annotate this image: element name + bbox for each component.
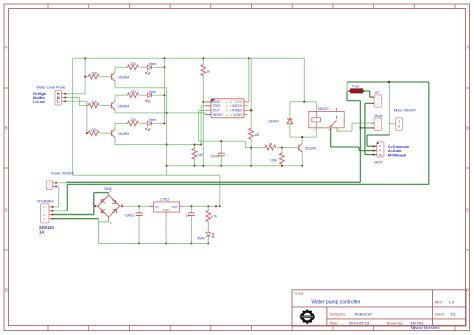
wire fuse left branch to motor [347, 91, 374, 182]
svg-text:DISCH: DISCH [232, 104, 243, 108]
555 pin stubs [205, 102, 251, 115]
svg-text:Water pump controller: Water pump controller [311, 299, 360, 305]
capacitor C2 1000u [125, 206, 143, 244]
svg-text:2N3904: 2N3904 [305, 146, 316, 150]
svg-text:Motor ON/OFF: Motor ON/OFF [394, 109, 416, 113]
wire power pin1 to mains band [56, 181, 66, 184]
svg-text:OUT: OUT [171, 205, 178, 209]
svg-text:M=Manual: M=Manual [388, 154, 406, 158]
svg-text:220: 220 [131, 118, 137, 122]
wire switch loop [367, 82, 389, 146]
svg-text:XFORMER: XFORMER [37, 199, 55, 203]
svg-text:100nF: 100nF [211, 154, 220, 158]
svg-text:5mm: 5mm [149, 118, 156, 122]
resistor R5 220 LED [127, 90, 138, 98]
resistor R11 100k [270, 148, 284, 167]
wire fuse right to AC pin1 [363, 91, 375, 97]
svg-text:RoBoCaT: RoBoCaT [355, 312, 373, 317]
svg-text:1M: 1M [254, 133, 259, 137]
svg-text:C: C [5, 208, 8, 213]
LED1 5mm [146, 62, 157, 75]
connector P4 SPDT [372, 142, 384, 165]
relay K1 08VDC [309, 102, 344, 137]
resistor R12 4.7k [206, 206, 218, 232]
svg-text:SPDT: SPDT [374, 161, 383, 165]
wire R3 to Q3 base [100, 132, 111, 134]
svg-text:Water Level Probe: Water Level Probe [37, 85, 66, 89]
wire xformer O- to bridge [53, 219, 109, 244]
wire xformer O+ to bridge [53, 193, 109, 215]
ground bus vertical [166, 88, 168, 176]
emitter rail stage1 to ground bus [115, 87, 167, 89]
svg-text:IN: IN [155, 205, 158, 209]
dark top rail right [347, 81, 429, 84]
title block frame [292, 290, 466, 326]
svg-text:Sheet:: Sheet: [435, 313, 445, 317]
svg-text:REV:: REV: [435, 301, 443, 305]
LED cathode bus [164, 58, 166, 123]
connector J1 water probe [55, 90, 66, 105]
title block text [294, 292, 457, 330]
wire LED1 to +12 bus [152, 66, 165, 68]
connector P2 AC [371, 91, 382, 108]
transistor Q3 2N3904 [112, 129, 130, 138]
svg-text:1.0: 1.0 [449, 300, 455, 305]
svg-text:5MM: 5MM [197, 236, 204, 240]
wire regulator out rail [185, 205, 220, 207]
svg-text:Date:: Date: [330, 321, 339, 325]
svg-text:Company:: Company: [330, 313, 346, 317]
wire R2 to Q2 base [100, 105, 111, 107]
resistor R2 220 base [88, 100, 99, 108]
transistor Q4 2N3904 relay driver [299, 143, 316, 152]
svg-text:220: 220 [131, 62, 137, 66]
svg-text:08VDC: 08VDC [318, 107, 329, 111]
transistor Q2 2N3904 [112, 101, 130, 110]
svg-text:1000u: 1000u [125, 214, 134, 218]
svg-text:2N3904: 2N3904 [118, 76, 129, 80]
svg-text:5mm: 5mm [149, 90, 156, 94]
svg-text:100k: 100k [270, 158, 277, 162]
svg-text:AC: AC [375, 91, 380, 95]
wire mains band upper dark [66, 181, 360, 184]
connector P3 Motor [371, 114, 383, 131]
svg-text:B: B [5, 126, 8, 131]
svg-text:220: 220 [91, 128, 97, 132]
svg-text:Motor: Motor [374, 114, 383, 118]
resistor R10 1k [265, 142, 276, 150]
svg-text:A=Auto: A=Auto [388, 149, 402, 153]
svg-text:A: A [466, 45, 469, 50]
capacitor C3 1u [185, 206, 195, 244]
svg-text:L7812: L7812 [160, 198, 169, 202]
wire relay pole to SPDT auto [331, 128, 377, 151]
wire to LED2 [140, 94, 148, 96]
wire R1 to Q1 base [100, 76, 111, 78]
transistor Q1 2N3904 [112, 73, 130, 82]
regulator U2 L7812 [149, 198, 184, 218]
wire relay loop bottom [290, 136, 316, 138]
resistor R8 1M [249, 128, 259, 167]
LED4 5MM power [197, 232, 214, 244]
switch S1 motor on/off [389, 109, 416, 131]
svg-text:5mm: 5mm [149, 62, 156, 66]
wire to LED1 [140, 66, 148, 68]
svg-text:1/1: 1/1 [450, 312, 456, 317]
resistor R3 220 base [88, 128, 99, 136]
svg-text:1u: 1u [185, 214, 189, 218]
supply ground rail [99, 243, 209, 245]
probe legend H=High M=Mid L=Low [33, 92, 47, 104]
wire Q2 collector to LED branch [115, 95, 127, 101]
svg-text:Drawn By:: Drawn By: [387, 321, 404, 325]
wire to LED3 [140, 122, 148, 124]
svg-text:2N3904: 2N3904 [118, 104, 129, 108]
wire +12 band light [73, 175, 221, 207]
svg-text:Power ON/OFF: Power ON/OFF [51, 172, 74, 176]
+12V top rail [73, 57, 305, 59]
wire Q4 emitter to ground rail [301, 152, 303, 167]
svg-text:4.7k: 4.7k [211, 215, 217, 219]
emitter rail stage3 to 555 TRIG [115, 106, 211, 146]
svg-text:O-: O- [43, 217, 46, 221]
svg-text:1A: 1A [39, 229, 44, 234]
svg-text:220: 220 [131, 90, 137, 94]
svg-text:1M: 1M [198, 153, 203, 157]
wire relay loop top [290, 58, 316, 102]
bridge rectifier B1 2W10 [92, 187, 123, 225]
wire Q3 emitter rail [114, 137, 116, 144]
company logo gear [300, 310, 315, 324]
svg-text:TITLE:: TITLE: [294, 292, 304, 296]
ground rail under 555 [167, 165, 303, 167]
resistor R7 1k pull-up [201, 58, 211, 166]
wire probe H to +12 rail and stage1 [66, 57, 88, 94]
water level probe label [37, 85, 66, 89]
wire Q3 collector to LED branch [115, 123, 127, 129]
svg-text:1: 1 [398, 120, 400, 124]
resistor R6 220 LED [127, 118, 138, 126]
wire 555 GND pin to bus [202, 101, 211, 103]
svg-text:RESET: RESET [213, 113, 224, 117]
wire probe L to stage3 [66, 101, 88, 134]
svg-text:1k: 1k [269, 142, 273, 146]
wire Q1 collector to LED branch [115, 67, 127, 72]
svg-text:A: A [5, 45, 8, 50]
wire xformer I- to mains band [53, 210, 67, 212]
diode D1 1N4007 [268, 102, 293, 137]
wire Q1 emitter rail [114, 81, 116, 88]
big loop right side [428, 82, 430, 184]
svg-text:CONT: CONT [233, 113, 242, 117]
node THRES junction [250, 58, 253, 128]
node base junction [277, 147, 299, 149]
svg-text:D: D [5, 288, 8, 293]
wire relay NO to motor [337, 123, 375, 131]
svg-text:220: 220 [91, 72, 97, 76]
LED3 5mm [146, 118, 157, 131]
wire LED3 to +12 bus [152, 122, 165, 124]
emitter rail stage2 to 555 RESET [115, 113, 211, 115]
wire LED2 to +12 bus [152, 94, 165, 96]
svg-text:TRIG: TRIG [213, 104, 221, 108]
svg-text:220: 220 [91, 100, 97, 104]
wire regulator ground [165, 217, 167, 244]
wire Q4 collector to relay [301, 136, 303, 143]
svg-text:D: D [466, 288, 469, 293]
svg-text:2019-05-19: 2019-05-19 [349, 320, 370, 325]
svg-text:C: C [466, 208, 469, 213]
svg-text:C=Common: C=Common [388, 145, 410, 149]
wire VCC to top rail [248, 58, 250, 102]
svg-text:1k: 1k [207, 69, 211, 73]
timer IC U1 555 [211, 99, 244, 118]
wire +12 rail down to supply [72, 58, 74, 175]
wire power pin2 to xformer [53, 187, 59, 207]
svg-text:B: B [466, 126, 469, 131]
resistor R9 1M lower [192, 144, 203, 167]
wire bridge to regulator rail [123, 205, 154, 207]
svg-text:Newaz Morshed: Newaz Morshed [411, 325, 440, 330]
wire AC pin2 to SPDT manual [365, 103, 377, 154]
svg-text:1N4007: 1N4007 [268, 120, 279, 124]
resistor R1 220 base [88, 72, 99, 80]
wire probe M to stage2 [66, 98, 88, 106]
svg-text:L=Low: L=Low [33, 100, 45, 104]
resistor R4 220 LED [127, 62, 138, 70]
svg-text:Fuse: Fuse [352, 84, 359, 88]
connector P6 XFORMER [37, 199, 55, 234]
svg-text:0: 0 [398, 125, 400, 129]
SPDT legend [388, 145, 410, 158]
wire Q2 emitter rail [114, 110, 116, 113]
wire OUT to relay driver [199, 110, 265, 147]
capacitor C1 100nF [211, 140, 225, 167]
fuse F1 [347, 82, 365, 93]
wire mains band lower dark [67, 184, 429, 210]
svg-text:2N3904: 2N3904 [118, 132, 129, 136]
svg-text:GND: GND [163, 208, 169, 212]
LED2 5mm [146, 90, 157, 103]
connector P5 power on/off [46, 172, 74, 190]
